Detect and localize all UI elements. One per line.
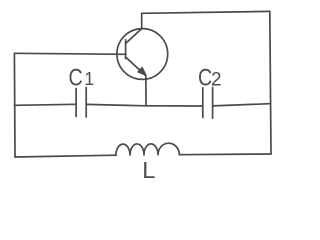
wire left vertical xyxy=(13,53,16,157)
wire emitter lead xyxy=(145,77,147,106)
wire middle-right xyxy=(213,104,270,106)
wire bottom-right xyxy=(179,153,271,156)
svg-text:C: C xyxy=(69,64,83,91)
wire right vertical xyxy=(270,11,271,154)
svg-text:1: 1 xyxy=(84,69,94,89)
wire collector lead xyxy=(141,13,143,28)
capacitor C1 xyxy=(76,88,86,118)
label C1 xyxy=(69,64,95,91)
transistor Q1 xyxy=(117,29,168,80)
inductor L xyxy=(116,143,179,155)
capacitor C2 xyxy=(203,87,213,118)
svg-text:2: 2 xyxy=(211,70,222,91)
wire top horizontal xyxy=(142,11,270,13)
wire middle-left xyxy=(14,104,76,105)
wire middle-center xyxy=(86,104,203,106)
label C2 xyxy=(198,64,222,91)
svg-text:L: L xyxy=(142,157,155,183)
wire bottom-left xyxy=(15,155,116,157)
wire base (top-left horizontal) xyxy=(14,53,126,54)
